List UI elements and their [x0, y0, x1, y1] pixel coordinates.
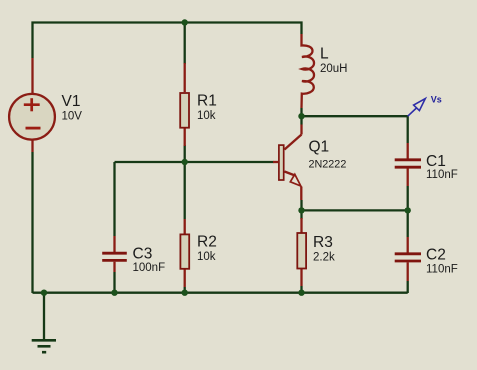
wire C3 bottom [113, 272, 115, 293]
wire L bottom to collector node [300, 108, 302, 116]
svg-text:V1: V1 [62, 93, 81, 110]
node ground junction [41, 290, 47, 296]
wire top bus [33, 23, 302, 59]
wire C2 top [407, 210, 409, 237]
svg-text:R2: R2 [197, 234, 217, 251]
svg-text:L: L [320, 46, 329, 63]
node top R1 junction [182, 19, 188, 25]
wire R1 bottom [184, 145, 186, 162]
inductor L [302, 34, 315, 108]
wire collector stub [300, 116, 302, 124]
capacitor C3 [102, 236, 127, 272]
node base junction [182, 159, 188, 165]
svg-text:C2: C2 [426, 247, 446, 264]
wire R3 bottom [300, 286, 302, 293]
wire bottom bus [33, 292, 408, 294]
wire R1 top [184, 23, 186, 65]
node C1-C2 junction [405, 207, 411, 213]
svg-text:10V: 10V [62, 111, 83, 123]
ground [32, 340, 56, 352]
svg-text:C3: C3 [133, 246, 153, 263]
node collector junction [298, 113, 304, 119]
wire base bus [115, 161, 274, 163]
wire C2 bottom [407, 281, 409, 293]
resistor R2 [180, 219, 189, 287]
wire C1 bottom [407, 186, 409, 210]
svg-text:R3: R3 [313, 234, 333, 251]
svg-text:C1: C1 [426, 153, 446, 170]
wire collector bus [302, 115, 408, 117]
svg-text:R1: R1 [197, 93, 217, 110]
resistor R1 [180, 63, 189, 146]
wire V1 bottom to bus [31, 152, 33, 293]
svg-text:Vs: Vs [431, 95, 442, 105]
wire emitter stub [300, 200, 302, 210]
transistor Q1 [273, 125, 302, 201]
svg-text:2N2222: 2N2222 [309, 159, 347, 171]
wire C1 top [407, 116, 409, 143]
svg-text:20uH: 20uH [320, 63, 348, 75]
voltage source V1 [9, 58, 55, 152]
svg-text:10k: 10k [197, 110, 216, 122]
capacitor C2 [395, 237, 421, 281]
node C3 bottom junction [111, 290, 117, 296]
svg-text:110nF: 110nF [426, 169, 458, 181]
wire emitter bus [302, 209, 408, 211]
svg-text:10k: 10k [197, 251, 216, 263]
wire R3 top [300, 210, 302, 219]
wire ground stem [43, 293, 45, 340]
wire C3 top column [113, 162, 115, 236]
svg-text:100nF: 100nF [133, 262, 166, 274]
svg-text:110nF: 110nF [426, 263, 458, 275]
capacitor C1 [395, 143, 421, 186]
svg-text:2.2k: 2.2k [313, 252, 335, 264]
resistor R3 [297, 218, 306, 286]
probe Vs [408, 99, 426, 117]
wire R2 bottom [184, 287, 186, 293]
wire R2 top [184, 162, 186, 219]
node R2 bottom junction [182, 290, 188, 296]
svg-text:Q1: Q1 [309, 139, 330, 156]
node emitter junction [298, 207, 304, 213]
node R3 bottom junction [298, 290, 304, 296]
